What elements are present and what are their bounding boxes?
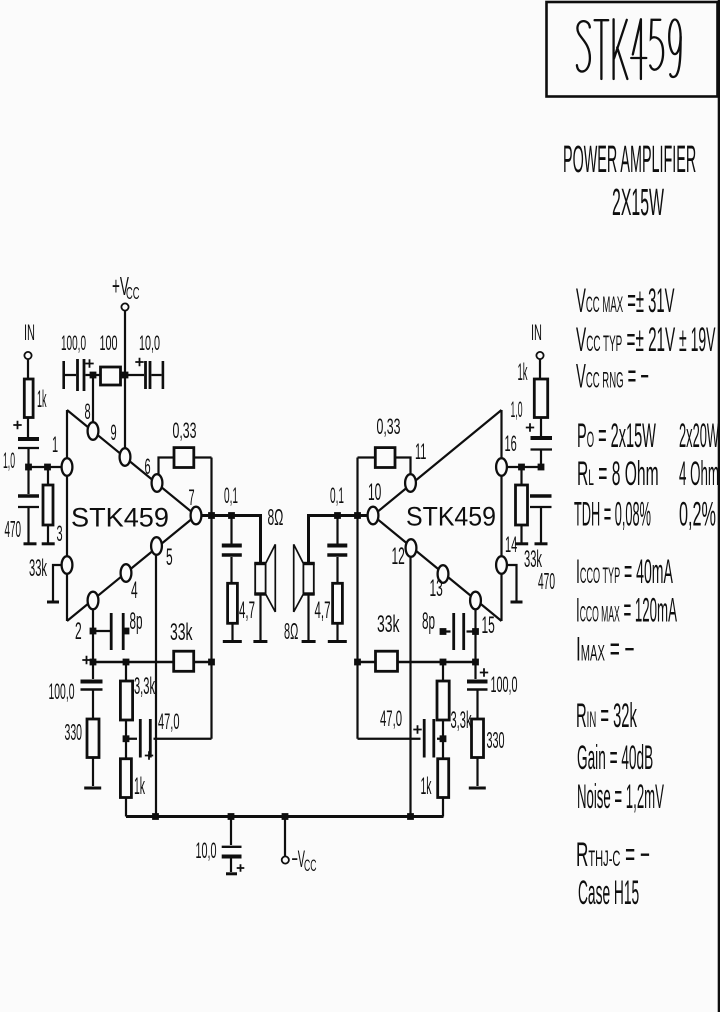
output wire pin 7 to speaker (left) xyxy=(202,516,261,565)
junction +Vcc / rail xyxy=(122,372,129,379)
amplifier U1 STK459 (left) triangle xyxy=(67,410,196,621)
capacitor 47,0 (right) xyxy=(358,719,444,758)
svg-text:0,1: 0,1 xyxy=(224,484,238,508)
polarity + of C 1,0 left xyxy=(13,421,21,429)
svg-text:7: 7 xyxy=(189,485,195,510)
svg-text:IN: IN xyxy=(24,320,35,345)
svg-text:± 19V: ± 19V xyxy=(679,320,716,359)
junction 8p/pin4 left xyxy=(123,628,130,635)
svg-text:13: 13 xyxy=(430,576,443,603)
svg-text:STK459: STK459 xyxy=(71,503,169,533)
resistor 1k (left input) xyxy=(24,379,33,418)
resistor 33k (left feedback) xyxy=(174,651,194,671)
pin 14 ground bracket 33k (right) xyxy=(507,565,523,602)
resistor 1k (left lower) xyxy=(120,739,131,817)
svg-text:8p: 8p xyxy=(130,607,143,634)
svg-text:STK459: STK459 xyxy=(406,501,496,532)
svg-text:1,0: 1,0 xyxy=(511,397,523,422)
svg-text:11: 11 xyxy=(415,439,426,464)
junction pin15/nfb xyxy=(472,659,479,666)
svg-text:1k: 1k xyxy=(134,772,145,799)
junction 3,3k/47,0 left xyxy=(123,735,130,742)
svg-text:100: 100 xyxy=(100,331,118,355)
polarity + of C 100,0 left xyxy=(82,656,90,664)
svg-text:IN: IN xyxy=(531,320,542,345)
junction pin2/8p xyxy=(90,628,97,635)
bus wire -Vcc xyxy=(126,815,444,818)
svg-text:33k: 33k xyxy=(29,554,47,581)
svg-text:10,0: 10,0 xyxy=(196,838,217,863)
capacitor 10,0 (rail left) xyxy=(135,358,150,389)
resistor 3,3k (right) xyxy=(437,662,449,739)
rail end bar right xyxy=(162,361,165,389)
wire pin 2 drop (left) xyxy=(92,609,94,679)
svg-text:3: 3 xyxy=(57,521,63,546)
svg-text:8Ω: 8Ω xyxy=(284,619,298,645)
title box STK459 xyxy=(547,2,718,97)
svg-text:10,0: 10,0 xyxy=(139,331,160,355)
svg-text:330: 330 xyxy=(65,719,83,745)
svg-text:4: 4 xyxy=(131,578,138,605)
ground bar bypass cap right xyxy=(535,542,548,545)
junction pin5/bus xyxy=(152,813,159,820)
capacitor 100,0 (right, pin15) xyxy=(467,682,488,720)
svg-text:0,33: 0,33 xyxy=(377,414,401,439)
junction nfb/3,3k left xyxy=(123,659,130,666)
junction pin12/bus xyxy=(407,813,414,820)
ground bar bypass cap left xyxy=(24,542,37,545)
pin 3 ground bracket 33k (left) xyxy=(47,565,62,602)
ground bar speaker left xyxy=(253,640,267,643)
ground bar R470 right xyxy=(515,542,528,545)
ground bar speaker right xyxy=(302,640,316,643)
amplifier U2 STK459 (right) triangle xyxy=(373,410,502,621)
resistor 470 (right) xyxy=(516,467,528,543)
svg-text:330: 330 xyxy=(487,728,505,754)
wire C 1,0 to node 1 xyxy=(27,448,29,467)
svg-text:470: 470 xyxy=(538,568,555,594)
svg-text:1k: 1k xyxy=(37,386,47,412)
svg-text:470: 470 xyxy=(5,516,22,542)
ground bar zobel left xyxy=(223,640,242,643)
wire pin 8 drop xyxy=(92,375,94,423)
resistor 330 (right) xyxy=(472,719,484,786)
svg-text:16: 16 xyxy=(505,431,517,456)
wire +Vcc down to rail and pin 9 xyxy=(124,311,126,448)
svg-text:1k: 1k xyxy=(518,358,528,386)
speaker 8 ohm (left) xyxy=(254,544,275,640)
capacitor (bypass, left) xyxy=(18,467,39,543)
junction output/feedback right xyxy=(354,512,361,519)
svg-text:−V: −V xyxy=(292,845,306,872)
ground bar 330 right xyxy=(469,787,486,790)
nfb wire (left) xyxy=(93,661,212,664)
capacitor 47,0 (left) xyxy=(126,719,212,760)
svg-text:TDH = 0,08%: TDH = 0,08% xyxy=(574,496,651,533)
ground bar R470 left xyxy=(42,542,55,545)
junction output/C 0,1 right xyxy=(334,512,341,519)
capacitor 0,1 (right zobel) xyxy=(327,516,347,584)
junction 8p/pin13 right xyxy=(440,628,447,635)
wire node pin 1 xyxy=(29,466,63,468)
capacitor 1,0 (left input) xyxy=(18,439,39,448)
capacitor (bypass, right) xyxy=(530,496,552,543)
wire power rail (left) xyxy=(65,374,162,376)
-Vcc terminal xyxy=(282,817,317,875)
junction bus/-Vcc xyxy=(282,813,289,820)
junction nfb/feedback left xyxy=(208,659,215,666)
resistor 1k (right lower) xyxy=(438,739,449,817)
svg-text:8p: 8p xyxy=(422,607,435,634)
resistor 100 (rail) xyxy=(101,367,121,385)
svg-text:0,1: 0,1 xyxy=(330,484,344,508)
IN terminal (right) xyxy=(531,320,544,359)
svg-text:CC: CC xyxy=(304,856,317,875)
capacitor 10,0 (bus) xyxy=(222,817,245,874)
feedback wire (right) xyxy=(356,458,358,739)
svg-text:5: 5 xyxy=(166,545,173,572)
capacitor 1,0 (right input) xyxy=(531,418,553,468)
nfb wire (right) xyxy=(358,661,476,664)
svg-text:Noise = 1,2mV: Noise = 1,2mV xyxy=(577,779,664,816)
svg-text:0,33: 0,33 xyxy=(173,418,197,443)
junction 3,3k/47,0 right xyxy=(440,735,447,742)
feedback wire (left) xyxy=(210,458,212,739)
resistor 0,33 (left) xyxy=(159,448,212,475)
svg-text:33k: 33k xyxy=(377,611,400,638)
junction pin15/8p xyxy=(472,628,479,635)
svg-text:12: 12 xyxy=(392,544,405,571)
polarity + of C 1,0 right xyxy=(526,423,534,431)
svg-text:100,0: 100,0 xyxy=(61,332,86,355)
junction nfb/feedback right xyxy=(354,659,361,666)
svg-text:15: 15 xyxy=(482,613,495,640)
resistor 33k (right feedback) xyxy=(376,651,398,671)
IN terminal (left) xyxy=(24,320,35,359)
resistor 330 (left) xyxy=(87,719,99,786)
svg-text:RIN = 32k: RIN = 32k xyxy=(576,696,637,735)
svg-text:10: 10 xyxy=(368,480,381,507)
svg-text:100,0: 100,0 xyxy=(49,679,75,705)
junction node1/R470 xyxy=(44,464,51,471)
svg-text:1: 1 xyxy=(52,432,58,457)
capacitor 100,0 (rail decoupling left) xyxy=(78,359,94,391)
resistor 1k (right input) xyxy=(534,379,547,418)
capacitor 0,1 (left zobel) xyxy=(222,516,242,584)
page right border xyxy=(718,0,720,1012)
wire node pin 16 xyxy=(507,466,541,468)
resistor 0,33 (right) xyxy=(358,448,411,475)
junction node1/input xyxy=(25,464,32,471)
svg-text:4,7: 4,7 xyxy=(239,596,255,623)
capacitor 8p (right) xyxy=(443,613,476,650)
capacitor 8p (left) xyxy=(93,613,126,650)
svg-text:47,0: 47,0 xyxy=(158,709,179,734)
svg-text:Case H15: Case H15 xyxy=(578,875,639,912)
junction node16/R470 xyxy=(518,464,525,471)
capacitor 100,0 (left, pin2) xyxy=(81,682,103,720)
speaker 8 ohm (right) xyxy=(294,544,315,640)
ground bar zobel right xyxy=(328,640,347,643)
svg-text:POWER AMPLIFIER: POWER AMPLIFIER xyxy=(563,139,696,181)
wire pin 5 drop (left) xyxy=(155,555,157,817)
junction nfb/3,3k right xyxy=(440,659,447,666)
svg-text:CC: CC xyxy=(126,284,140,304)
svg-text:0,2%: 0,2% xyxy=(679,495,716,533)
junction output/feedback left xyxy=(208,512,215,519)
svg-text:3,3k: 3,3k xyxy=(451,706,472,733)
svg-text:4,7: 4,7 xyxy=(315,596,331,623)
svg-text:100,0: 100,0 xyxy=(491,672,518,697)
junction node16/input xyxy=(538,464,545,471)
svg-text:2X15W: 2X15W xyxy=(612,182,664,224)
pin circles left amp xyxy=(62,458,73,476)
svg-text:14: 14 xyxy=(505,532,517,557)
svg-text:33k: 33k xyxy=(170,619,193,646)
svg-text:47,0: 47,0 xyxy=(380,706,402,731)
svg-text:8: 8 xyxy=(85,399,91,424)
output wire pin 10 to speaker (right) xyxy=(309,516,368,565)
wire IN to R 1k right xyxy=(539,359,541,379)
wire pin 15 drop (right) xyxy=(474,609,476,679)
svg-text:3,3k: 3,3k xyxy=(134,672,155,699)
wire IN to R 1k xyxy=(27,359,29,379)
svg-text:1k: 1k xyxy=(421,772,432,799)
svg-text:1,0: 1,0 xyxy=(3,448,15,473)
svg-text:8Ω: 8Ω xyxy=(268,504,284,530)
svg-text:9: 9 xyxy=(111,420,117,445)
svg-text:2: 2 xyxy=(75,619,82,646)
+Vcc terminal (left) xyxy=(112,272,140,310)
junction rail / pin 8 xyxy=(90,372,97,379)
wire 1k to C 1,0 xyxy=(27,418,29,438)
svg-text:Gain = 40dB: Gain = 40dB xyxy=(577,740,653,777)
resistor 4,7 (right zobel) xyxy=(333,583,343,640)
rail end bar left xyxy=(62,361,65,389)
junction pin2/nfb xyxy=(90,659,97,666)
polarity + of C 100,0 right xyxy=(480,668,488,676)
pin circles right amp xyxy=(496,458,507,476)
resistor 470 (left) xyxy=(43,467,53,543)
resistor 3,3k (left) xyxy=(120,662,132,739)
resistor 4,7 (left zobel) xyxy=(228,583,238,640)
junction bus/10,0 xyxy=(228,813,235,820)
svg-text:6: 6 xyxy=(145,454,151,479)
svg-text:2x20W: 2x20W xyxy=(679,418,719,455)
ground bar 330 left xyxy=(84,787,101,790)
svg-text:4 Ohm: 4 Ohm xyxy=(679,456,719,493)
junction output/C 0,1 left xyxy=(228,512,235,519)
wire pin 12 drop (right) xyxy=(409,557,411,817)
